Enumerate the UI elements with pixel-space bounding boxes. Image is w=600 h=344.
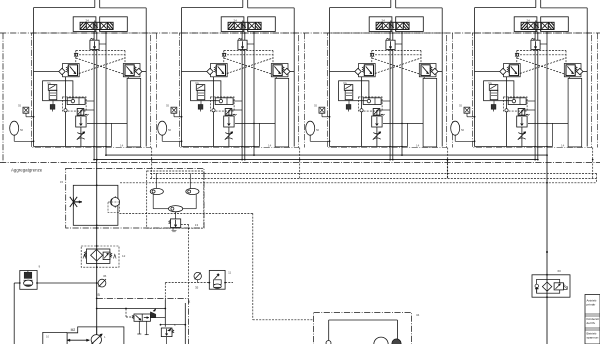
svg-text:60: 60 bbox=[558, 269, 562, 273]
svg-text:24: 24 bbox=[234, 19, 238, 23]
svg-text:11: 11 bbox=[228, 271, 231, 275]
svg-text:15: 15 bbox=[60, 180, 64, 184]
svg-text:primär: primär bbox=[587, 303, 596, 307]
svg-text:14: 14 bbox=[120, 143, 124, 147]
svg-text:34: 34 bbox=[416, 313, 420, 317]
svg-text:35: 35 bbox=[195, 286, 199, 290]
svg-text:56: 56 bbox=[461, 128, 465, 132]
svg-text:55: 55 bbox=[459, 104, 463, 108]
svg-text:spannun: spannun bbox=[587, 336, 599, 340]
svg-text:36: 36 bbox=[103, 274, 107, 278]
svg-text:56: 56 bbox=[316, 128, 320, 132]
svg-text:Aggregatgrenze: Aggregatgrenze bbox=[11, 168, 43, 173]
svg-text:55: 55 bbox=[166, 104, 170, 108]
svg-text:14: 14 bbox=[561, 143, 565, 147]
svg-text:Re: Re bbox=[48, 81, 52, 85]
svg-text:Re: Re bbox=[196, 81, 200, 85]
svg-text:55: 55 bbox=[18, 104, 22, 108]
svg-text:10: 10 bbox=[46, 335, 50, 339]
svg-text:M2: M2 bbox=[71, 328, 76, 332]
svg-text:24: 24 bbox=[382, 19, 386, 23]
svg-text:12: 12 bbox=[122, 254, 126, 258]
svg-text:13: 13 bbox=[195, 223, 199, 227]
svg-text:24: 24 bbox=[527, 19, 531, 23]
svg-text:Re: Re bbox=[489, 81, 493, 85]
svg-text:56: 56 bbox=[20, 128, 24, 132]
svg-text:24: 24 bbox=[86, 19, 90, 23]
svg-text:Re: Re bbox=[344, 81, 348, 85]
svg-text:14: 14 bbox=[268, 143, 272, 147]
svg-text:55: 55 bbox=[314, 104, 318, 108]
svg-text:del Pu: del Pu bbox=[587, 321, 596, 325]
svg-text:14: 14 bbox=[416, 143, 420, 147]
svg-text:56: 56 bbox=[168, 128, 172, 132]
